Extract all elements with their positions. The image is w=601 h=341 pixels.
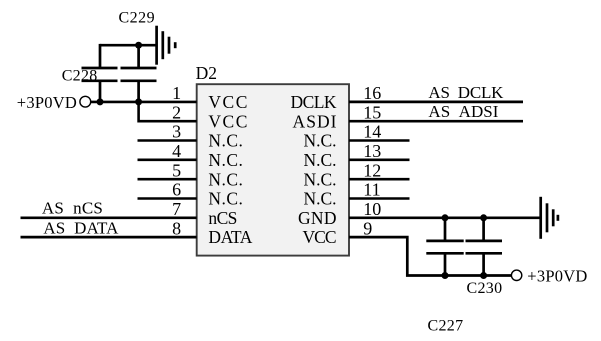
svg-text:N.C.: N.C. bbox=[208, 150, 243, 170]
svg-text:16: 16 bbox=[363, 83, 381, 103]
svg-text:14: 14 bbox=[363, 122, 381, 142]
wire pin 15 to AS_ADSI bbox=[349, 120, 523, 123]
capacitor C227 bbox=[426, 218, 463, 276]
svg-text:AS nCS: AS nCS bbox=[42, 199, 103, 218]
svg-text:N.C.: N.C. bbox=[208, 169, 243, 189]
wire AS_nCS to pin 7 bbox=[21, 216, 197, 219]
svg-text:C227: C227 bbox=[428, 318, 464, 335]
svg-text:15: 15 bbox=[363, 102, 381, 122]
junction at C227 top bbox=[442, 214, 449, 221]
pin 3 wire bbox=[138, 139, 197, 142]
svg-text:5: 5 bbox=[172, 160, 181, 180]
svg-text:C229: C229 bbox=[119, 10, 156, 27]
svg-text:N.C.: N.C. bbox=[304, 169, 337, 189]
wire AS_DATA to pin 8 bbox=[21, 236, 197, 239]
pin 14 wire bbox=[349, 139, 410, 142]
pin 12 wire bbox=[349, 178, 410, 181]
power port +3P0VD (left) terminal circle bbox=[80, 96, 91, 107]
pin 6 wire bbox=[138, 197, 197, 200]
capacitor C230 bbox=[466, 218, 503, 276]
svg-text:VCC: VCC bbox=[208, 92, 247, 112]
svg-text:11: 11 bbox=[363, 180, 380, 200]
junction at C230 bottom bbox=[480, 272, 487, 279]
svg-text:DATA: DATA bbox=[208, 227, 252, 247]
pin 13 wire bbox=[349, 159, 410, 162]
wire pin 16 to AS_DCLK bbox=[349, 101, 523, 104]
svg-text:C230: C230 bbox=[467, 280, 503, 297]
svg-text:AS ADSI: AS ADSI bbox=[428, 102, 498, 121]
svg-text:N.C.: N.C. bbox=[208, 189, 243, 209]
svg-text:AS DCLK: AS DCLK bbox=[428, 83, 504, 102]
svg-text:4: 4 bbox=[172, 141, 181, 161]
pin 4 wire bbox=[138, 159, 197, 162]
svg-text:D2: D2 bbox=[196, 63, 217, 83]
wire pin 9 to +3P0VD (right) bbox=[349, 237, 512, 275]
wire +3P0VD branch to pin 2 bbox=[139, 102, 197, 121]
svg-text:DCLK: DCLK bbox=[291, 92, 337, 112]
junction at C227 bottom bbox=[442, 272, 449, 279]
svg-text:6: 6 bbox=[172, 180, 181, 200]
svg-text:GND: GND bbox=[298, 208, 337, 228]
svg-text:9: 9 bbox=[363, 218, 372, 238]
svg-text:8: 8 bbox=[172, 218, 181, 238]
svg-text:N.C.: N.C. bbox=[208, 131, 243, 151]
pin 11 wire bbox=[349, 197, 410, 200]
pin 5 wire bbox=[138, 178, 197, 181]
junction on top ground rail bbox=[135, 42, 142, 49]
ground (top left) bbox=[157, 26, 176, 65]
wire pin 10 GND rail bbox=[349, 216, 540, 219]
svg-text:13: 13 bbox=[363, 141, 381, 161]
wire ground rail (top left) bbox=[100, 44, 157, 47]
svg-text:nCS: nCS bbox=[208, 208, 237, 228]
svg-text:7: 7 bbox=[172, 199, 181, 219]
svg-text:N.C.: N.C. bbox=[304, 131, 337, 151]
svg-text:3: 3 bbox=[172, 122, 181, 142]
svg-text:VCC: VCC bbox=[208, 111, 247, 131]
junction at C230 top bbox=[480, 214, 487, 221]
svg-text:VCC: VCC bbox=[303, 227, 337, 247]
junction at C229 bottom bbox=[135, 98, 142, 105]
svg-text:AS DATA: AS DATA bbox=[43, 218, 119, 237]
junction at C228 bottom bbox=[97, 98, 104, 105]
svg-text:1: 1 bbox=[172, 83, 181, 103]
svg-text:N.C.: N.C. bbox=[304, 189, 337, 209]
svg-text:2: 2 bbox=[172, 102, 181, 122]
svg-text:ASDI: ASDI bbox=[293, 111, 337, 131]
capacitor C228 bbox=[82, 44, 118, 102]
svg-text:12: 12 bbox=[363, 160, 381, 180]
svg-text:N.C.: N.C. bbox=[304, 150, 337, 170]
power port +3P0VD (right) terminal circle bbox=[511, 270, 521, 280]
svg-text:+3P0VD: +3P0VD bbox=[17, 93, 77, 112]
capacitor C229 (top-left pair, right unit) bbox=[121, 45, 157, 102]
wire +3P0VD to pin 1 bbox=[91, 101, 197, 104]
IC D2 body bbox=[197, 84, 349, 255]
ground (bottom right) bbox=[541, 197, 558, 239]
svg-text:10: 10 bbox=[363, 199, 381, 219]
svg-text:+3P0VD: +3P0VD bbox=[527, 266, 587, 285]
